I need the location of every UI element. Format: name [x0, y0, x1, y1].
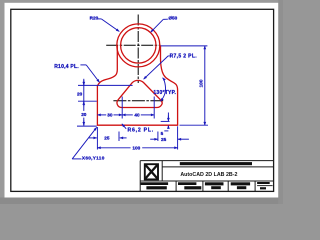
divider under title text row — [140, 180, 273, 182]
svg-text:20: 20 — [77, 92, 83, 97]
R6 leader — [122, 124, 126, 129]
bottom strip redaction bars — [141, 182, 273, 189]
leader R7.5 2PL — [168, 55, 170, 57]
part outline — [97, 45, 177, 125]
svg-text:25: 25 — [161, 137, 167, 142]
divider under name bar — [162, 166, 273, 168]
svg-text:30: 30 — [107, 112, 113, 117]
left 20/20 extension lines — [78, 84, 133, 86]
svg-text:Ø50: Ø50 — [168, 16, 177, 21]
slot horizontal centerline — [113, 100, 163, 102]
outer boss circle D50 — [117, 24, 160, 67]
svg-text:R7,5 2 PL.: R7,5 2 PL. — [170, 54, 198, 60]
30 dim line — [97, 114, 106, 116]
angular dim arc 130 — [160, 78, 165, 102]
gray surround — [0, 0, 283, 204]
title block left border — [139, 161, 141, 192]
leader R20 — [98, 18, 102, 20]
svg-text:5: 5 — [161, 131, 164, 136]
extension line top of 100 dim — [161, 45, 208, 47]
extension line bottom right — [180, 124, 209, 126]
svg-text:25: 25 — [104, 135, 110, 140]
svg-text:40: 40 — [134, 112, 140, 117]
leader R10 4PL — [80, 64, 86, 66]
right 25 arrows — [150, 138, 158, 140]
X60Y110 tail — [72, 158, 81, 160]
title block top border — [140, 160, 273, 162]
horizontal centerline of circle — [106, 44, 160, 46]
slot cutout — [117, 80, 162, 107]
svg-text:R6,2 PL.: R6,2 PL. — [128, 128, 154, 134]
bottom shadow band — [0, 198, 283, 205]
svg-text:AutoCAD 2D LAB 2B-2: AutoCAD 2D LAB 2B-2 — [180, 172, 237, 178]
vertical centerline through circle and slot apex — [137, 15, 139, 84]
leader D50 — [163, 18, 168, 20]
bottom strip cell dividers — [175, 181, 177, 191]
slot fillet center verticals — [121, 97, 123, 119]
X60Y110 leader — [72, 127, 97, 159]
logo cell right border — [161, 161, 163, 181]
20/20 dim vertical — [83, 79, 85, 111]
school name redaction bar — [180, 162, 252, 165]
100 bottom dim line — [97, 147, 130, 149]
logo — [145, 164, 158, 179]
sheet border frame — [11, 9, 274, 191]
5 text hook — [164, 130, 168, 132]
bottom extension verticals — [96, 127, 98, 150]
40 dim line — [122, 114, 133, 116]
svg-text:100: 100 — [198, 79, 203, 87]
svg-text:X60,Y110: X60,Y110 — [82, 155, 105, 160]
100 dim vertical line — [204, 46, 206, 125]
right shadow band — [278, 0, 283, 204]
svg-text:R20: R20 — [90, 15, 99, 20]
inner hole circle R20 — [121, 28, 156, 63]
left 25 arrows — [89, 137, 97, 139]
white sheet — [5, 3, 279, 198]
svg-text:20: 20 — [81, 112, 87, 117]
svg-text:100: 100 — [132, 145, 140, 150]
5 dim arrows — [161, 120, 170, 122]
svg-text:130°TYP.: 130°TYP. — [153, 90, 176, 96]
svg-text:R10,4 PL.: R10,4 PL. — [54, 64, 79, 70]
